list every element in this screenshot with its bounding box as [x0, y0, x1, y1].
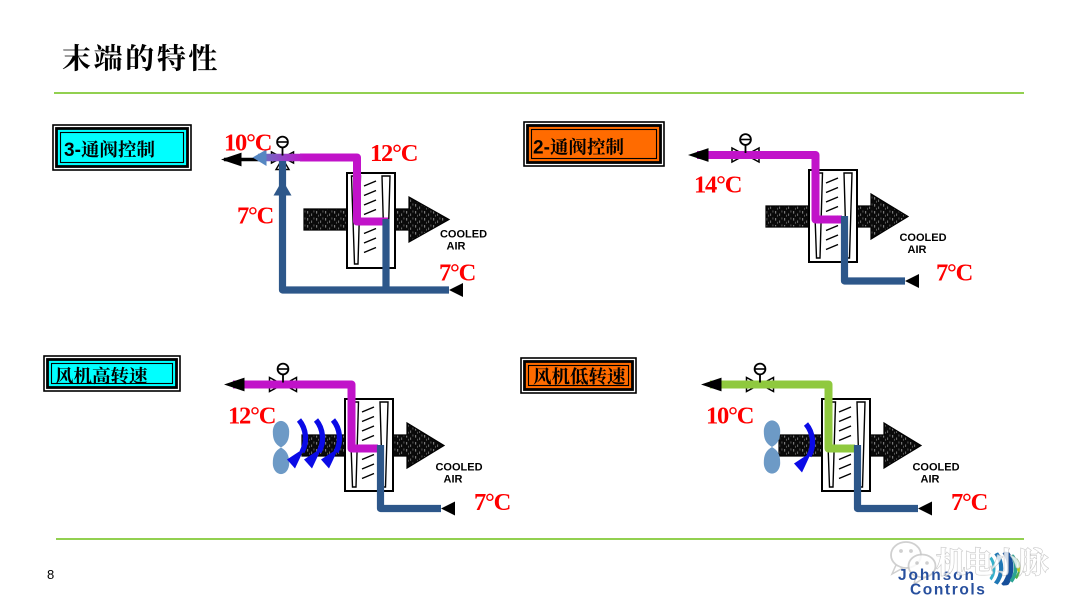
coil left tube: [350, 402, 359, 487]
Johnson Controls globe mark: [986, 551, 1023, 586]
svg-text:8: 8: [47, 567, 54, 582]
svg-text:10°C: 10°C: [224, 130, 271, 157]
fan propeller: [273, 421, 289, 474]
svg-text:3-: 3-: [64, 140, 81, 161]
coil right tube: [844, 173, 852, 258]
coil right tube: [382, 176, 390, 264]
return pipe end arrow: [441, 502, 455, 516]
title underline (green): [54, 92, 1024, 94]
return pipe (7C): [858, 445, 919, 509]
valve actuator stem: [759, 373, 761, 383]
svg-text:7°C: 7°C: [936, 260, 972, 287]
coil left tube: [814, 173, 823, 258]
outlet arrow (black): [701, 378, 722, 392]
outlet arrow (black): [221, 153, 242, 167]
valve actuator stem: [282, 373, 284, 383]
svg-text:COOLED: COOLED: [899, 232, 946, 244]
return pipe (7C): [381, 445, 442, 509]
valve body (bowtie): [747, 378, 760, 392]
watermark chat bubble 1: [891, 542, 921, 574]
supply pipe 12C (magenta): [300, 158, 388, 222]
fan propeller: [764, 420, 780, 473]
label box 3-way: outer frame: [53, 125, 191, 170]
outlet line (black): [224, 158, 262, 162]
coil right tube: [380, 402, 388, 487]
svg-text:7°C: 7°C: [439, 260, 475, 287]
cooled-air arrow (stippled): [766, 194, 908, 239]
coil fins hatch: [839, 407, 851, 412]
riser arrowhead (navy, up): [274, 180, 292, 196]
mixed outlet arrowhead (steel blue): [253, 150, 267, 167]
supply pipe 12C (magenta): [233, 385, 378, 449]
label text 2-通阀控制: [533, 138, 623, 159]
supply pipe 10C (green): [710, 385, 855, 449]
svg-text:AIR: AIR: [908, 244, 927, 256]
valve actuator head (circle with bar): [740, 134, 751, 145]
supply pipe 14C (magenta): [697, 155, 842, 220]
label text 风机高转速: [56, 367, 148, 384]
cooled-air arrow (stippled): [302, 423, 444, 468]
slide title 末端的特性: [63, 44, 217, 71]
air flow arrow: [316, 420, 322, 452]
air flow arrow: [806, 424, 812, 456]
svg-text:Controls: Controls: [910, 582, 987, 599]
svg-text:10°C: 10°C: [706, 403, 753, 430]
air flow arrow: [333, 420, 339, 452]
svg-text:COOLED: COOLED: [435, 462, 482, 474]
cooled-air arrow (stippled): [779, 423, 921, 468]
watermark text 机电小脉: [937, 548, 1048, 576]
return pipe end arrow: [918, 502, 932, 516]
label box fan-low: outer frame: [521, 358, 636, 393]
return pipe (7C): [845, 216, 906, 281]
cooled-air arrow (stippled): [304, 197, 449, 242]
coil right tube: [857, 402, 865, 487]
svg-text:7°C: 7°C: [237, 203, 273, 230]
svg-text:12°C: 12°C: [228, 403, 275, 430]
fan-coil unit casing: [809, 170, 857, 262]
return pipe end arrow: [905, 274, 919, 288]
valve actuator stem: [745, 144, 747, 154]
outlet arrow (black): [688, 148, 709, 162]
coil drop pipe (navy): [382, 219, 389, 290]
valve actuator head (circle with bar): [755, 364, 766, 375]
air flow arrow: [299, 420, 305, 452]
coil fins hatch: [826, 178, 838, 183]
valve body (bowtie): [732, 148, 745, 162]
valve third port triangle: [276, 159, 289, 170]
svg-text:14°C: 14°C: [694, 172, 741, 199]
svg-text:7°C: 7°C: [951, 489, 987, 516]
svg-text:COOLED: COOLED: [440, 229, 487, 241]
svg-text:AIR: AIR: [444, 474, 463, 486]
svg-text:AIR: AIR: [447, 241, 466, 253]
svg-text:2-: 2-: [533, 138, 550, 159]
coil left tube: [352, 176, 361, 264]
valve actuator head (circle with bar): [277, 137, 288, 148]
fan-coil unit casing: [347, 173, 395, 268]
fan-coil unit casing: [345, 399, 393, 491]
bottom run end arrow: [449, 283, 463, 297]
valve actuator stem: [282, 146, 284, 156]
svg-text:COOLED: COOLED: [912, 462, 959, 474]
svg-text:12°C: 12°C: [370, 140, 417, 167]
label text 风机低转速: [534, 367, 626, 384]
fan-coil unit casing: [822, 399, 870, 491]
coil fins hatch: [362, 407, 374, 412]
return riser + bottom run (navy): [283, 161, 450, 290]
outlet arrow (black): [224, 378, 245, 392]
watermark chat bubble 2: [909, 555, 936, 585]
label text 3-通阀控制: [64, 140, 154, 161]
svg-text:7°C: 7°C: [474, 489, 510, 516]
coil fins hatch: [364, 181, 376, 186]
valve actuator head (circle with bar): [278, 364, 289, 375]
mixed outlet pipe (gradient blue-magenta): [258, 154, 304, 162]
label box fan-high: outer frame: [44, 356, 180, 391]
bottom rule (green): [56, 538, 1024, 540]
label box 2-way: outer frame: [524, 122, 664, 166]
coil left tube: [827, 402, 836, 487]
valve body (bowtie): [270, 378, 283, 392]
svg-text:AIR: AIR: [921, 474, 940, 486]
valve body (bowtie): [272, 152, 283, 163]
